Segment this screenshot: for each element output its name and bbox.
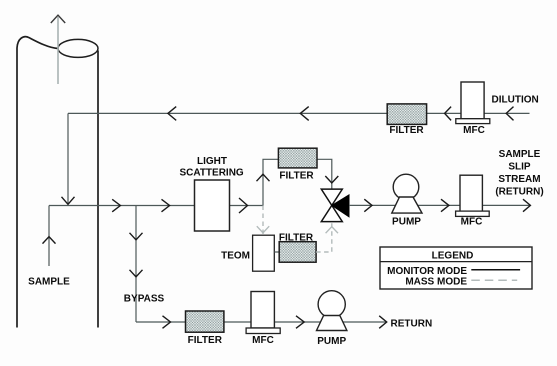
bypass return line [136,321,387,323]
sample probe arrowhead [43,237,56,244]
MFC M1 body [461,82,484,119]
label LIGHT SCATTERING [179,156,243,179]
dilution downcomer wire [67,113,69,204]
svg-text:SAMPLE: SAMPLE [28,276,70,287]
bypass arrow 2 [130,270,143,277]
svg-text:MASS MODE: MASS MODE [405,276,467,287]
valve V1 bottom triangle [321,205,342,221]
dilution line arrow 1 [506,107,513,121]
svg-text:SAMPLE: SAMPLE [499,149,541,160]
stack opening ellipse [58,39,98,57]
TEOM outlet wire [274,251,279,253]
legend mass mode dashed line [471,279,517,281]
mass path dashed drop wire [262,206,264,236]
svg-text:PUMP: PUMP [317,336,346,347]
main line arrow 1 [112,199,120,212]
dilution line arrow 2 [445,107,452,121]
dilution filter F1 [387,104,426,125]
bypass line arrow 2 [296,316,304,329]
valve V1 top triangle [321,189,342,205]
sample probe wire [48,206,50,267]
main line arrow 2 [162,199,170,212]
dilution line arrow 4 [168,107,176,121]
MFC M3 base [246,328,280,334]
legend header line [380,261,532,263]
stack exhaust arrow shaft [57,17,59,84]
legend monitor mode solid line [471,269,520,271]
svg-text:MFC: MFC [461,217,483,228]
mass filter F3 [279,242,316,263]
pump P1 circle [393,174,419,200]
svg-text:PUMP: PUMP [392,217,421,228]
pump P1 base [392,197,422,213]
svg-text:SCATTERING: SCATTERING [179,168,243,179]
slip line arrow 2 [441,199,449,212]
mass path dashed wire to valve [316,222,332,252]
svg-text:BYPASS: BYPASS [124,294,165,305]
light scattering box [195,180,230,231]
svg-text:DILUTION: DILUTION [492,94,539,105]
svg-text:RETURN: RETURN [391,319,433,330]
MFC M2 body [460,175,482,212]
monitor path riser wire [263,159,278,205]
svg-text:LEGEND: LEGEND [432,251,474,262]
svg-text:FILTER: FILTER [188,335,223,346]
MFC M3 body [251,292,274,329]
bypass filter F4 [186,311,224,332]
svg-text:FILTER: FILTER [279,232,314,243]
bypass drop wire [135,206,137,323]
riser arrowhead [257,174,270,181]
MFC M1 base [456,119,490,124]
valve inlet arrowhead [325,176,338,183]
svg-text:MFC: MFC [252,335,274,346]
svg-text:(RETURN): (RETURN) [495,186,543,197]
slip stream arrowhead [523,199,530,212]
stack exhaust arrowhead [51,15,65,23]
main sample line [49,205,263,207]
pump P2 circle [318,291,345,318]
dilution return line [68,112,530,114]
dashed valve inlet arrowhead [326,227,338,234]
svg-text:FILTER: FILTER [389,125,424,136]
return arrowhead [379,316,387,329]
TEOM box [253,235,275,271]
bypass line arrow 1 [163,316,171,329]
monitor filter F2 [278,148,317,168]
svg-text:FILTER: FILTER [279,171,314,182]
pump P2 base [317,316,347,331]
svg-text:STREAM: STREAM [498,174,540,185]
stack duct right wall [97,51,99,328]
dilution line arrow 3 [300,107,308,121]
dashed drop arrowhead [257,226,269,233]
MFC M2 base [456,211,490,216]
slip line arrow 1 [364,199,372,212]
stack duct left wall [17,37,58,328]
main line arrow 3 [239,198,248,213]
downcomer arrowhead [62,197,75,205]
valve V1 black cone [332,195,349,217]
bypass arrow 1 [130,233,143,240]
monitor filter outlet wire [317,159,332,189]
slip stream line [349,204,530,206]
svg-text:MFC: MFC [463,125,485,136]
svg-text:SLIP: SLIP [508,162,531,173]
label SAMPLE SLIP STREAM (RETURN) [495,149,543,197]
svg-text:TEOM: TEOM [221,251,250,262]
svg-text:LIGHT: LIGHT [197,156,227,167]
legend box [380,247,532,289]
